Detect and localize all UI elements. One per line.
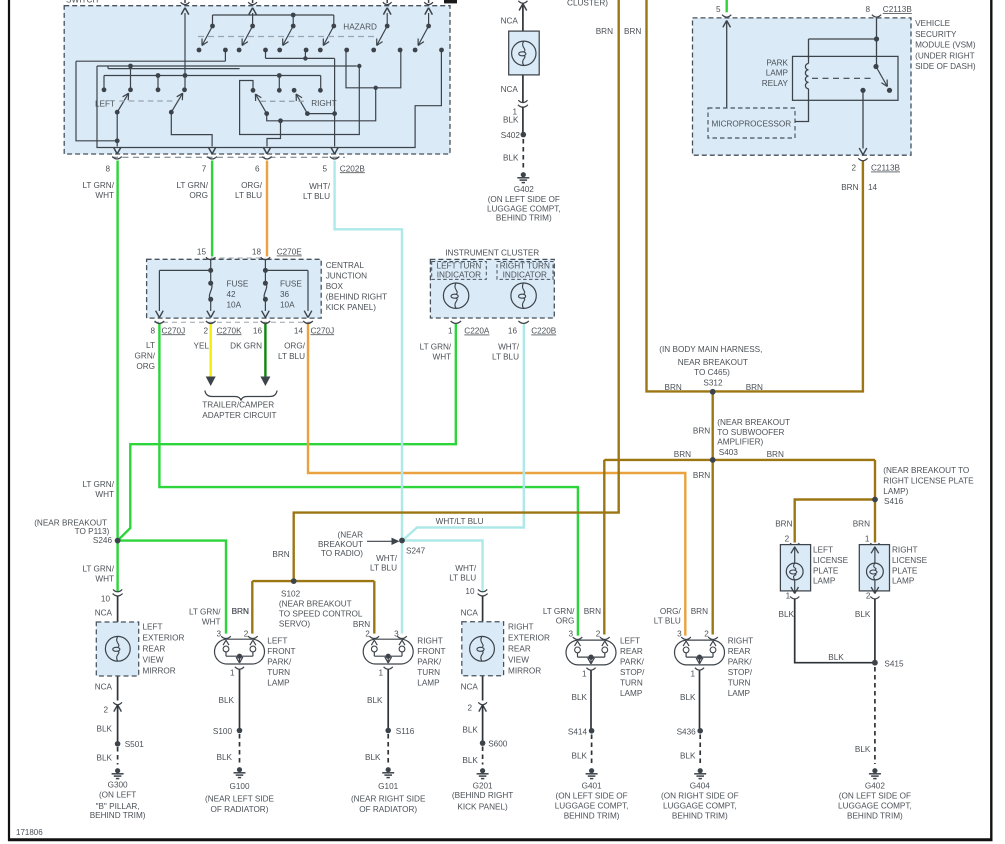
svg-text:5: 5 xyxy=(322,164,327,173)
svg-text:S116: S116 xyxy=(396,727,415,736)
svg-text:S402: S402 xyxy=(501,131,521,140)
svg-text:BEHIND TRIM): BEHIND TRIM) xyxy=(847,812,903,821)
svg-text:WHT/: WHT/ xyxy=(309,182,331,191)
svg-text:3: 3 xyxy=(568,629,573,638)
svg-text:C202B: C202B xyxy=(340,164,366,173)
svg-text:INDICATOR: INDICATOR xyxy=(503,271,547,280)
svg-text:NCA: NCA xyxy=(461,683,479,692)
svg-text:NCA: NCA xyxy=(501,16,519,25)
svg-text:10: 10 xyxy=(465,587,475,596)
svg-text:BLK: BLK xyxy=(680,693,696,702)
svg-text:BEHIND TRIM): BEHIND TRIM) xyxy=(496,214,552,223)
svg-text:BEHIND TRIM): BEHIND TRIM) xyxy=(90,811,146,820)
svg-text:7: 7 xyxy=(202,164,207,173)
svg-text:(NEAR BREAKOUT: (NEAR BREAKOUT xyxy=(279,599,352,608)
svg-text:1: 1 xyxy=(230,669,235,678)
svg-text:VIEW: VIEW xyxy=(143,656,164,665)
svg-text:ORG/: ORG/ xyxy=(284,342,306,351)
svg-text:BLK: BLK xyxy=(367,696,383,705)
svg-text:BLK: BLK xyxy=(680,752,696,761)
svg-text:OF RADIATOR): OF RADIATOR) xyxy=(359,805,417,814)
svg-text:S501: S501 xyxy=(125,740,145,749)
svg-text:LAMP: LAMP xyxy=(417,679,440,688)
svg-text:REAR: REAR xyxy=(143,645,166,654)
svg-text:LAMP: LAMP xyxy=(267,679,290,688)
svg-text:RIGHT: RIGHT xyxy=(417,637,442,646)
svg-text:FRONT: FRONT xyxy=(417,647,445,656)
svg-text:ADAPTER CIRCUIT: ADAPTER CIRCUIT xyxy=(202,411,276,420)
svg-text:S102: S102 xyxy=(281,589,301,598)
svg-text:S416: S416 xyxy=(884,497,904,506)
svg-text:LEFT TURN: LEFT TURN xyxy=(437,261,482,270)
svg-text:RIGHT: RIGHT xyxy=(311,99,336,108)
svg-text:BRN: BRN xyxy=(693,427,710,436)
svg-text:BRN: BRN xyxy=(775,520,792,529)
svg-text:LEFT: LEFT xyxy=(267,637,287,646)
svg-text:BRN: BRN xyxy=(674,450,691,459)
svg-text:RIGHT TURN: RIGHT TURN xyxy=(500,261,550,270)
svg-text:G401: G401 xyxy=(582,782,602,791)
svg-text:1: 1 xyxy=(786,592,791,601)
svg-text:8: 8 xyxy=(105,164,110,173)
svg-text:1: 1 xyxy=(582,670,587,679)
svg-text:PARK/: PARK/ xyxy=(417,658,442,667)
svg-text:VEHICLE: VEHICLE xyxy=(915,19,951,28)
svg-text:G300: G300 xyxy=(108,781,128,790)
svg-text:BOX: BOX xyxy=(326,282,344,291)
svg-text:(NEAR: (NEAR xyxy=(338,530,364,539)
svg-text:BRN: BRN xyxy=(853,520,870,529)
svg-text:PLATE: PLATE xyxy=(892,566,918,575)
svg-text:BRN: BRN xyxy=(584,607,601,616)
svg-text:WHT/LT BLU: WHT/LT BLU xyxy=(436,517,484,526)
svg-text:(NEAR LEFT SIDE: (NEAR LEFT SIDE xyxy=(205,795,275,804)
svg-text:S436: S436 xyxy=(677,728,697,737)
svg-text:BLK: BLK xyxy=(855,610,871,619)
svg-text:PARK/: PARK/ xyxy=(267,658,292,667)
svg-text:LEFT: LEFT xyxy=(95,99,115,108)
svg-text:G100: G100 xyxy=(229,782,249,791)
svg-text:15: 15 xyxy=(197,248,207,257)
svg-text:C2113B: C2113B xyxy=(883,5,913,14)
svg-text:(BEHIND RIGHT: (BEHIND RIGHT xyxy=(452,791,513,800)
svg-text:NEAR BREAKOUT: NEAR BREAKOUT xyxy=(678,358,748,367)
svg-text:LT GRN/: LT GRN/ xyxy=(189,608,221,617)
svg-text:LUGGAGE COMPT,: LUGGAGE COMPT, xyxy=(663,801,737,810)
svg-text:NCA: NCA xyxy=(95,683,113,692)
svg-text:PLATE: PLATE xyxy=(813,566,839,575)
svg-text:BEHIND TRIM): BEHIND TRIM) xyxy=(564,811,620,820)
svg-text:TRAILER/CAMPER: TRAILER/CAMPER xyxy=(202,401,274,410)
svg-text:2: 2 xyxy=(785,535,790,544)
svg-text:LEFT: LEFT xyxy=(143,623,163,632)
svg-text:NCA: NCA xyxy=(461,609,479,618)
svg-text:BRN: BRN xyxy=(693,471,710,480)
svg-text:2: 2 xyxy=(866,592,871,601)
svg-text:CENTRAL: CENTRAL xyxy=(326,261,365,270)
svg-text:EXTERIOR: EXTERIOR xyxy=(143,634,185,643)
svg-text:TO C465): TO C465) xyxy=(694,368,730,377)
svg-text:JUNCTION: JUNCTION xyxy=(326,272,367,281)
svg-text:BLK: BLK xyxy=(97,725,113,734)
svg-text:FUSE: FUSE xyxy=(227,280,249,289)
svg-text:FRONT: FRONT xyxy=(267,647,295,656)
svg-text:LEFT: LEFT xyxy=(620,637,640,646)
svg-text:(NEAR RIGHT SIDE: (NEAR RIGHT SIDE xyxy=(351,795,426,804)
svg-text:8: 8 xyxy=(150,326,155,335)
svg-text:BRN: BRN xyxy=(624,27,641,36)
svg-text:TO SPEED CONTROL: TO SPEED CONTROL xyxy=(279,609,363,618)
svg-text:LICENSE: LICENSE xyxy=(813,556,849,565)
svg-text:SERVO): SERVO) xyxy=(279,619,311,628)
svg-text:5: 5 xyxy=(716,5,721,14)
svg-text:TO SUBWOOFER: TO SUBWOOFER xyxy=(717,428,784,437)
svg-text:S100: S100 xyxy=(213,727,233,736)
svg-text:DK GRN: DK GRN xyxy=(230,342,262,351)
svg-text:LT BLU: LT BLU xyxy=(235,191,262,200)
svg-text:LUGGAGE COMPT,: LUGGAGE COMPT, xyxy=(838,802,912,811)
svg-text:C220B: C220B xyxy=(531,327,557,336)
svg-text:RIGHT: RIGHT xyxy=(892,546,917,555)
svg-text:2: 2 xyxy=(596,629,601,638)
svg-text:16: 16 xyxy=(508,327,518,336)
svg-text:LT: LT xyxy=(146,341,155,350)
svg-text:WHT: WHT xyxy=(202,618,221,627)
svg-text:LT BLU: LT BLU xyxy=(303,192,330,201)
svg-text:BRN: BRN xyxy=(746,383,763,392)
svg-text:(BEHIND RIGHT: (BEHIND RIGHT xyxy=(326,293,387,302)
svg-text:BRN: BRN xyxy=(232,607,249,616)
svg-text:S247: S247 xyxy=(406,547,426,556)
svg-text:TURN: TURN xyxy=(417,668,440,677)
svg-text:LT GRN/: LT GRN/ xyxy=(82,181,114,190)
svg-text:C270K: C270K xyxy=(217,326,243,335)
svg-text:SWITCH: SWITCH xyxy=(66,0,98,5)
svg-text:16: 16 xyxy=(253,326,263,335)
svg-text:KICK PANEL): KICK PANEL) xyxy=(326,303,377,312)
svg-text:BRN: BRN xyxy=(272,550,289,559)
svg-text:LT BLU: LT BLU xyxy=(449,574,476,583)
svg-text:2: 2 xyxy=(851,164,856,173)
svg-text:ORG/: ORG/ xyxy=(241,181,263,190)
svg-text:G404: G404 xyxy=(690,782,710,791)
svg-text:WHT: WHT xyxy=(95,191,114,200)
svg-text:KICK PANEL): KICK PANEL) xyxy=(457,803,508,812)
svg-text:LT BLU: LT BLU xyxy=(492,353,519,362)
svg-text:(IN BODY MAIN HARNESS,: (IN BODY MAIN HARNESS, xyxy=(659,345,762,354)
svg-text:14: 14 xyxy=(868,183,878,192)
svg-text:S403: S403 xyxy=(719,448,739,457)
svg-text:6: 6 xyxy=(255,164,260,173)
svg-text:NCA: NCA xyxy=(501,85,519,94)
svg-text:LT BLU: LT BLU xyxy=(654,617,681,626)
svg-text:WHT: WHT xyxy=(433,353,452,362)
svg-text:REAR: REAR xyxy=(620,647,643,656)
svg-text:LAMP: LAMP xyxy=(892,577,915,586)
svg-text:1: 1 xyxy=(865,535,870,544)
svg-text:RIGHT: RIGHT xyxy=(508,623,533,632)
svg-text:BLK: BLK xyxy=(462,726,478,735)
svg-text:LEFT: LEFT xyxy=(813,546,833,555)
svg-text:10A: 10A xyxy=(227,301,242,310)
svg-text:2: 2 xyxy=(203,326,208,335)
svg-text:G101: G101 xyxy=(378,782,398,791)
svg-text:3: 3 xyxy=(394,629,399,638)
svg-text:BRN: BRN xyxy=(841,183,858,192)
svg-text:YEL: YEL xyxy=(194,342,210,351)
svg-text:WHT: WHT xyxy=(95,490,114,499)
svg-text:BLK: BLK xyxy=(572,752,588,761)
svg-text:FUSE: FUSE xyxy=(280,280,302,289)
svg-text:10A: 10A xyxy=(280,301,295,310)
svg-text:PARK/: PARK/ xyxy=(728,658,753,667)
svg-text:S414: S414 xyxy=(568,728,588,737)
svg-text:LT BLU: LT BLU xyxy=(278,352,305,361)
svg-text:2: 2 xyxy=(365,629,370,638)
svg-text:INSTRUMENT CLUSTER: INSTRUMENT CLUSTER xyxy=(445,249,539,258)
svg-text:42: 42 xyxy=(227,290,237,299)
svg-text:LT GRN/: LT GRN/ xyxy=(543,607,575,616)
svg-text:BEHIND TRIM): BEHIND TRIM) xyxy=(672,811,728,820)
svg-text:C220A: C220A xyxy=(464,327,490,336)
svg-text:TURN: TURN xyxy=(620,679,643,688)
svg-text:C270E: C270E xyxy=(277,248,303,257)
svg-text:C2113B: C2113B xyxy=(871,164,901,173)
svg-text:MIRROR: MIRROR xyxy=(508,667,541,676)
svg-text:BLK: BLK xyxy=(828,653,844,662)
svg-text:LICENSE: LICENSE xyxy=(892,556,928,565)
svg-text:BLK: BLK xyxy=(365,753,381,762)
svg-text:18: 18 xyxy=(252,248,262,257)
svg-text:G402: G402 xyxy=(514,185,534,194)
svg-text:INDICATOR: INDICATOR xyxy=(437,271,481,280)
svg-text:STOP/: STOP/ xyxy=(728,668,753,677)
svg-text:BLK: BLK xyxy=(503,115,519,124)
svg-text:G402: G402 xyxy=(865,782,885,791)
svg-text:TO RADIO): TO RADIO) xyxy=(321,549,363,558)
svg-text:G201: G201 xyxy=(473,782,493,791)
svg-text:ORG/: ORG/ xyxy=(660,607,682,616)
svg-text:STOP/: STOP/ xyxy=(620,668,645,677)
svg-text:2: 2 xyxy=(467,704,472,713)
svg-text:1: 1 xyxy=(378,669,383,678)
svg-text:10: 10 xyxy=(101,595,111,604)
svg-text:LAMP: LAMP xyxy=(620,689,643,698)
svg-text:NCA: NCA xyxy=(95,609,113,618)
svg-text:LT GRN/: LT GRN/ xyxy=(176,181,208,190)
svg-text:WHT: WHT xyxy=(95,575,114,584)
svg-text:RIGHT: RIGHT xyxy=(728,637,753,646)
svg-text:2: 2 xyxy=(103,706,108,715)
svg-text:2: 2 xyxy=(244,629,249,638)
svg-text:BLK: BLK xyxy=(503,154,519,163)
svg-text:BREAKOUT: BREAKOUT xyxy=(318,540,363,549)
svg-text:1: 1 xyxy=(448,327,453,336)
svg-text:LUGGAGE COMPT,: LUGGAGE COMPT, xyxy=(487,204,561,213)
svg-text:8: 8 xyxy=(865,5,870,14)
svg-text:(NEAR BREAKOUT: (NEAR BREAKOUT xyxy=(717,418,790,427)
svg-text:BLK: BLK xyxy=(462,756,478,765)
svg-text:C270J: C270J xyxy=(311,326,335,335)
svg-text:3: 3 xyxy=(216,629,221,638)
svg-text:REAR: REAR xyxy=(508,645,531,654)
svg-text:BLK: BLK xyxy=(572,693,588,702)
svg-text:"B" PILLAR,: "B" PILLAR, xyxy=(96,802,140,811)
svg-text:ORG: ORG xyxy=(136,362,155,371)
svg-text:C270J: C270J xyxy=(162,326,186,335)
svg-text:S246: S246 xyxy=(93,536,113,545)
svg-text:(ON RIGHT SIDE OF: (ON RIGHT SIDE OF xyxy=(661,791,739,800)
svg-text:(NEAR BREAKOUT TO: (NEAR BREAKOUT TO xyxy=(883,466,969,475)
svg-text:EXTERIOR: EXTERIOR xyxy=(508,634,550,643)
svg-text:LT GRN/: LT GRN/ xyxy=(420,343,452,352)
svg-text:ORG: ORG xyxy=(189,191,208,200)
svg-text:REAR: REAR xyxy=(728,647,751,656)
svg-text:171806: 171806 xyxy=(16,828,43,837)
svg-text:LT BLU: LT BLU xyxy=(370,564,397,573)
svg-text:TURN: TURN xyxy=(267,668,290,677)
svg-text:BRN: BRN xyxy=(596,27,613,36)
svg-text:(ON LEFT SIDE OF: (ON LEFT SIDE OF xyxy=(556,791,628,800)
svg-text:AMPLIFIER): AMPLIFIER) xyxy=(717,438,763,447)
svg-text:CLUSTER): CLUSTER) xyxy=(567,0,608,8)
svg-text:(UNDER RIGHT: (UNDER RIGHT xyxy=(915,51,975,60)
svg-text:BRN: BRN xyxy=(691,607,708,616)
svg-text:3: 3 xyxy=(677,629,682,638)
svg-text:BLK: BLK xyxy=(219,696,235,705)
svg-text:WHT/: WHT/ xyxy=(455,564,477,573)
svg-text:WHT/: WHT/ xyxy=(376,554,398,563)
svg-text:MICROPROCESSOR: MICROPROCESSOR xyxy=(712,120,792,129)
svg-text:LT GRN/: LT GRN/ xyxy=(82,565,114,574)
svg-text:MIRROR: MIRROR xyxy=(143,667,176,676)
svg-text:MODULE (VSM): MODULE (VSM) xyxy=(915,41,976,50)
svg-text:TURN: TURN xyxy=(728,679,751,688)
svg-text:14: 14 xyxy=(294,326,304,335)
svg-text:WHT/: WHT/ xyxy=(498,343,520,352)
svg-text:BLK: BLK xyxy=(779,610,795,619)
svg-text:RELAY: RELAY xyxy=(762,79,789,88)
svg-text:LUGGAGE COMPT,: LUGGAGE COMPT, xyxy=(555,801,629,810)
svg-text:PARK/: PARK/ xyxy=(620,658,645,667)
svg-text:VIEW: VIEW xyxy=(508,656,529,665)
svg-text:(ON LEFT SIDE OF: (ON LEFT SIDE OF xyxy=(839,792,911,801)
svg-text:36: 36 xyxy=(280,290,290,299)
svg-text:(ON LEFT SIDE OF: (ON LEFT SIDE OF xyxy=(488,195,560,204)
svg-text:RIGHT LICENSE PLATE: RIGHT LICENSE PLATE xyxy=(883,477,974,486)
svg-text:BLK: BLK xyxy=(97,754,113,763)
svg-text:1: 1 xyxy=(690,670,695,679)
svg-text:OF RADIATOR): OF RADIATOR) xyxy=(211,805,269,814)
svg-text:SIDE OF DASH): SIDE OF DASH) xyxy=(915,62,976,71)
svg-text:2: 2 xyxy=(704,629,709,638)
svg-text:LAMP: LAMP xyxy=(728,689,751,698)
svg-text:(ON LEFT: (ON LEFT xyxy=(99,791,136,800)
svg-text:SECURITY: SECURITY xyxy=(915,30,957,39)
svg-text:LAMP: LAMP xyxy=(813,577,836,586)
svg-text:TO P113): TO P113) xyxy=(75,527,110,536)
svg-text:BRN: BRN xyxy=(767,450,784,459)
svg-text:LAMP): LAMP) xyxy=(883,487,908,496)
svg-text:PARK: PARK xyxy=(766,59,788,68)
svg-text:LT GRN/: LT GRN/ xyxy=(82,480,114,489)
svg-text:ORG: ORG xyxy=(556,617,575,626)
svg-text:BLK: BLK xyxy=(217,753,233,762)
svg-text:S312: S312 xyxy=(703,378,723,387)
svg-text:BLK: BLK xyxy=(855,745,871,754)
svg-text:BRN: BRN xyxy=(353,620,370,629)
svg-text:HAZARD: HAZARD xyxy=(343,23,377,32)
svg-text:LAMP: LAMP xyxy=(766,69,789,78)
svg-text:GRN/: GRN/ xyxy=(135,352,156,361)
svg-text:BRN: BRN xyxy=(665,383,682,392)
svg-text:S600: S600 xyxy=(488,740,508,749)
svg-text:S415: S415 xyxy=(884,660,904,669)
